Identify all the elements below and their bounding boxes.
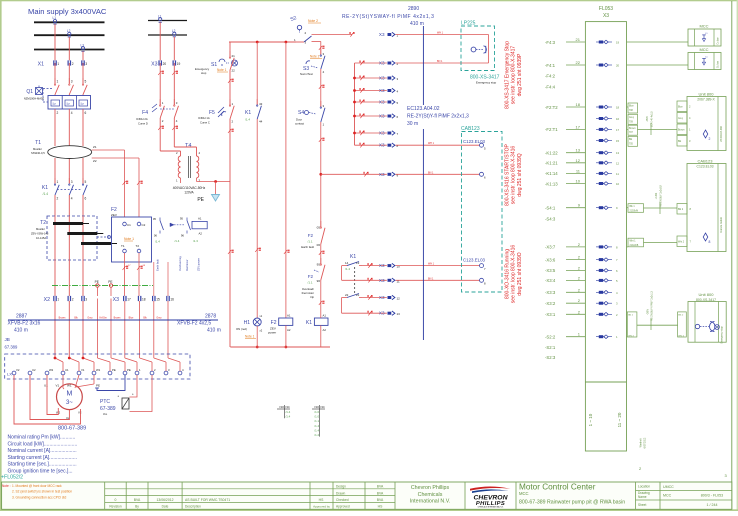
svg-text:2. S2 (and switch) is shown in: 2. S2 (and switch) is shown in test posi… [12, 490, 72, 494]
svg-text:UMCC: UMCC [663, 485, 674, 489]
svg-text:X3: X3 [151, 62, 157, 68]
svg-text:Approved: Approved [336, 505, 350, 509]
svg-text:PE: PE [197, 197, 204, 203]
svg-text:Blk 2: Blk 2 [678, 315, 684, 317]
svg-text:800-XS-3417 Emergency Stop: 800-XS-3417 Emergency Stop [505, 41, 511, 109]
svg-text:Curve C: Curve C [200, 121, 210, 125]
svg-text:Unit 800: Unit 800 [699, 292, 715, 297]
svg-text:+FL052/2: +FL052/2 [1, 475, 23, 481]
svg-text:F2: F2 [308, 233, 314, 238]
svg-text:From/to DeltaV: From/to DeltaV [720, 217, 723, 233]
svg-text:A2: A2 [287, 328, 291, 332]
svg-text:F5: F5 [209, 110, 215, 116]
svg-text:-K1:21: -K1:21 [545, 161, 558, 166]
svg-text:-K1:22: -K1:22 [545, 151, 558, 156]
svg-text:/1.1: /1.1 [314, 419, 319, 423]
svg-text:JB/B: JB/B [646, 116, 649, 122]
svg-text:2887: 2887 [16, 314, 27, 320]
svg-text:Q1: Q1 [26, 89, 33, 95]
svg-text:Wht 2: Wht 2 [628, 335, 634, 338]
svg-text:H1: H1 [244, 320, 251, 326]
svg-text:trip: trip [310, 295, 314, 299]
svg-text:PE: PE [95, 280, 99, 284]
svg-text:21: 21 [232, 54, 236, 58]
svg-text:2: 2 [72, 62, 74, 66]
svg-text:Curve D: Curve D [138, 122, 148, 126]
svg-text:-X3:2: -X3:2 [545, 301, 556, 306]
svg-text:/1.0: /1.0 [314, 410, 319, 414]
svg-text:/1.4: /1.4 [314, 428, 319, 432]
svg-text:dwg 251 sht 0939Q: dwg 251 sht 0939Q [517, 153, 523, 196]
svg-text:13: 13 [356, 261, 360, 265]
svg-text:/1.3: /1.3 [193, 239, 198, 243]
svg-text:Brown: Brown [114, 317, 121, 320]
svg-text:AS BUILT FOR WMC.TS0471: AS BUILT FOR WMC.TS0471 [185, 498, 230, 502]
svg-text:3: 3 [85, 62, 87, 66]
svg-text:/1.4: /1.4 [286, 415, 291, 419]
svg-text:XFVB-F2 4x2,5: XFVB-F2 4x2,5 [177, 321, 211, 327]
svg-text:410 m: 410 m [410, 21, 424, 27]
svg-text:1 / 244: 1 / 244 [707, 503, 718, 507]
svg-text:K1: K1 [306, 320, 312, 326]
svg-text:V2: V2 [16, 368, 20, 372]
svg-text:FL053: FL053 [599, 6, 613, 12]
svg-text:PTC: PTC [100, 399, 110, 405]
svg-text:3~: 3~ [66, 400, 73, 406]
svg-text:800-67-389 Rainwater pump pit: 800-67-389 Rainwater pump pit @ RWA basi… [519, 499, 625, 505]
svg-text:X3: X3 [379, 143, 385, 148]
svg-text:Note 2: Note 2 [310, 55, 320, 59]
svg-text:1. Mounted @ front door MCC ra: 1. Mounted @ front door MCC rack [12, 484, 62, 488]
svg-text:13/06/2012: 13/06/2012 [157, 498, 174, 502]
svg-text:-X3:6: -X3:6 [545, 257, 556, 262]
svg-text:IC60H 1A: IC60H 1A [198, 116, 210, 120]
svg-text:Date: Date [162, 505, 169, 509]
svg-text:17: 17 [127, 298, 131, 302]
svg-text:1 ~ 10: 1 ~ 10 [588, 413, 593, 426]
svg-text:M: M [66, 391, 72, 398]
svg-text:X3: X3 [379, 295, 385, 300]
svg-text:-S2:1: -S2:1 [545, 345, 556, 350]
svg-text:WH 1: WH 1 [428, 142, 435, 145]
svg-text:X3: X3 [379, 61, 385, 66]
svg-text:NO: NO [315, 405, 320, 409]
svg-text:Grey: Grey [87, 317, 93, 320]
svg-text:PE: PE [127, 368, 131, 372]
svg-text:-X3:7: -X3:7 [545, 245, 556, 250]
svg-text:see instr. loop 800-X-3417: see instr. loop 800-X-3417 [511, 46, 517, 105]
svg-text:Circuit load [kW].............: Circuit load [kW].......................… [8, 441, 78, 447]
svg-text:Emergency stop: Emergency stop [721, 326, 724, 344]
svg-text:Grey: Grey [156, 317, 162, 320]
svg-text:ON (red): ON (red) [236, 327, 247, 331]
svg-text:C123.EL03: C123.EL03 [697, 165, 714, 169]
svg-text:11: 11 [616, 172, 619, 176]
svg-text:ZEV: ZEV [111, 213, 117, 217]
svg-text:2102A/B: 2102A/B [630, 244, 639, 247]
svg-text:2878: 2878 [205, 314, 216, 320]
svg-text:800/3 - FL053: 800/3 - FL053 [701, 494, 723, 498]
svg-text:U1: U1 [44, 384, 48, 388]
svg-text:20: 20 [163, 62, 167, 66]
svg-text:Yel/Grn: Yel/Grn [99, 317, 108, 320]
svg-text:-X3:5: -X3:5 [545, 268, 556, 273]
svg-text:Brown: Brown [59, 317, 66, 320]
svg-text:Wht 2: Wht 2 [678, 335, 684, 338]
svg-text:-F4:2: -F4:2 [545, 73, 556, 78]
svg-text:Blue: Blue [629, 106, 634, 108]
svg-text:96: 96 [317, 279, 321, 283]
svg-text:/1.4: /1.4 [345, 267, 350, 271]
svg-text:(CPJ-4) 4x1,5: (CPJ-4) 4x1,5 [651, 111, 654, 127]
svg-text:LX: LX [7, 372, 12, 377]
svg-text:Location: Location [638, 485, 650, 489]
svg-text:Blk 1: Blk 1 [630, 206, 636, 208]
svg-text:V1: V1 [56, 384, 60, 388]
svg-text:15: 15 [156, 298, 160, 302]
svg-text:44: 44 [259, 120, 263, 124]
svg-text:1: 1 [57, 62, 59, 66]
svg-text:Note 1: Note 1 [245, 335, 255, 339]
svg-text:C2: C2 [142, 223, 146, 227]
svg-text:4: 4 [71, 197, 73, 201]
svg-text:Cu bar: Cu bar [717, 61, 720, 68]
svg-text:/1.4: /1.4 [314, 424, 319, 428]
svg-text:15: 15 [616, 139, 620, 143]
svg-text:RE-2Y(St)Y-fl PiMF 2x2x1,3: RE-2Y(St)Y-fl PiMF 2x2x1,3 [651, 291, 654, 321]
svg-text:X3: X3 [379, 263, 385, 268]
svg-text:Nominal rating Pm [kW]........: Nominal rating Pm [kW]........... [8, 435, 76, 441]
svg-text:10-145A: 10-145A [36, 236, 46, 240]
svg-text:21: 21 [356, 293, 360, 297]
svg-text:W2: W2 [49, 368, 54, 372]
svg-text:-K1:13: -K1:13 [545, 181, 558, 186]
svg-text:X3: X3 [379, 114, 385, 119]
svg-text:JB: JB [5, 337, 10, 342]
svg-text:/1.4: /1.4 [155, 240, 160, 244]
svg-text:Overload sig.: Overload sig. [178, 255, 182, 271]
svg-text:Chevron Phillips: Chevron Phillips [411, 485, 450, 491]
svg-text:T4: T4 [185, 143, 191, 149]
svg-text:4: 4 [71, 111, 73, 115]
svg-text:Chemicals: Chemicals [418, 492, 443, 498]
svg-text:PE: PE [112, 368, 116, 372]
svg-text:22: 22 [345, 293, 349, 297]
svg-text:800-XS-3416 START/STOP: 800-XS-3416 START/STOP [505, 143, 511, 205]
svg-text:dwg 251 sht 0939O: dwg 251 sht 0939O [517, 252, 523, 295]
svg-text:12: 12 [616, 161, 620, 165]
svg-text:-K1:14: -K1:14 [545, 171, 558, 176]
svg-text:RE-2Y(St)YSWAY-fl PiMF 4x2x1,3: RE-2Y(St)YSWAY-fl PiMF 4x2x1,3 [342, 14, 434, 20]
svg-text:Name: Name [638, 495, 647, 499]
svg-text:C1: C1 [127, 223, 131, 227]
svg-text:3. Grounding connection acc.CP: 3. Grounding connection acc.CPCI std [12, 495, 66, 499]
svg-text:Emergency stop: Emergency stop [476, 81, 497, 85]
svg-text:K1: K1 [245, 110, 251, 116]
svg-text:12: 12 [576, 158, 581, 163]
svg-text:By: By [135, 505, 139, 509]
svg-text:6: 6 [85, 197, 87, 201]
svg-text:Z1: Z1 [93, 145, 97, 149]
svg-text:/1.2: /1.2 [314, 433, 319, 437]
svg-text:-X3:4: -X3:4 [545, 278, 556, 283]
svg-text:C123.EL03: C123.EL03 [463, 258, 486, 263]
svg-text:-F2:T2: -F2:T2 [545, 105, 558, 110]
svg-text:Starting current [A]..........: Starting current [A].................... [8, 455, 77, 461]
svg-text:120VA: 120VA [184, 191, 194, 195]
svg-text:16: 16 [616, 117, 620, 121]
svg-text:18: 18 [576, 102, 581, 107]
svg-text:BN 1: BN 1 [428, 171, 434, 174]
svg-text:13: 13 [616, 151, 620, 155]
svg-text:V2: V2 [78, 411, 82, 415]
svg-text:Earth fault: Earth fault [156, 259, 160, 271]
svg-text:17: 17 [616, 128, 620, 132]
svg-text:dwg 251 sht 0939P: dwg 251 sht 0939P [517, 53, 523, 96]
svg-text:RE-2Y(St)Y 2x2x0,9: RE-2Y(St)Y 2x2x0,9 [660, 185, 663, 207]
svg-text:19: 19 [616, 41, 620, 45]
svg-text:NO: NO [280, 405, 285, 409]
svg-text:2: 2 [709, 137, 711, 141]
svg-text:International N.V.: International N.V. [410, 499, 450, 505]
svg-text:CAB123: CAB123 [698, 159, 714, 164]
svg-text:Description: Description [185, 505, 201, 509]
svg-text:Moeller: Moeller [33, 147, 42, 151]
svg-text:-CJ02: -CJ02 [655, 192, 658, 199]
svg-text:/1.1: /1.1 [307, 281, 312, 285]
svg-text:17: 17 [576, 124, 581, 129]
svg-text:96: 96 [181, 234, 185, 238]
svg-text:see instr. loop 800-X-3416: see instr. loop 800-X-3416 [511, 146, 517, 205]
svg-text:Note 1: Note 1 [124, 237, 134, 241]
svg-text:06: 06 [317, 243, 321, 247]
svg-text:ZEV-XSW-145: ZEV-XSW-145 [31, 232, 49, 236]
svg-text:22: 22 [576, 60, 581, 65]
svg-text:800-XO-3416 Running: 800-XO-3416 Running [505, 249, 511, 299]
svg-text:SSW40-0,5: SSW40-0,5 [31, 151, 45, 155]
svg-text:2: 2 [57, 111, 59, 115]
svg-text:Blk 2: Blk 2 [678, 209, 684, 211]
svg-text:Brown: Brown [629, 127, 636, 130]
svg-text:BVA: BVA [377, 498, 384, 502]
svg-text:/1.4: /1.4 [175, 239, 180, 243]
svg-text:MCC: MCC [519, 491, 529, 496]
svg-text:67.389: 67.389 [5, 345, 18, 350]
svg-text:BVA: BVA [377, 491, 384, 495]
svg-text:-F4:1: -F4:1 [545, 63, 556, 68]
svg-text:X3: X3 [379, 172, 385, 177]
svg-text:W1: W1 [67, 384, 72, 388]
svg-text:-S4:1: -S4:1 [545, 206, 556, 211]
svg-text:Blue: Blue [129, 317, 134, 320]
svg-text:5: 5 [85, 180, 87, 184]
svg-text:1: 1 [57, 298, 59, 302]
svg-text:05: 05 [153, 217, 157, 221]
svg-text:T2: T2 [40, 220, 46, 226]
svg-text:Note 1: Note 1 [217, 68, 227, 72]
svg-text:Z2: Z2 [93, 159, 97, 163]
svg-text:-F2:T1: -F2:T1 [545, 127, 558, 132]
svg-text:2: 2 [57, 197, 59, 201]
svg-text:PHILLIPS: PHILLIPS [476, 501, 505, 507]
svg-text:PE: PE [108, 280, 112, 284]
svg-text:A1: A1 [323, 314, 327, 318]
svg-text:21: 21 [576, 37, 581, 42]
svg-text:ZEV power: ZEV power [197, 258, 201, 271]
svg-text:14: 14 [345, 261, 349, 265]
svg-text:410 m: 410 m [207, 328, 221, 334]
svg-text:2102b/N: 2102b/N [630, 210, 639, 212]
svg-text:BN 1: BN 1 [437, 60, 443, 63]
svg-text:HS: HS [378, 505, 383, 509]
svg-text:T1: T1 [35, 140, 41, 146]
svg-text:22: 22 [232, 69, 236, 73]
svg-text:EC123.A04.02: EC123.A04.02 [407, 106, 440, 112]
svg-text:thermistor: thermistor [185, 259, 189, 271]
svg-text:K1: K1 [42, 185, 48, 191]
svg-text:/1.1: /1.1 [307, 240, 312, 244]
svg-text:X3: X3 [379, 32, 385, 37]
svg-text:-X3:3: -X3:3 [545, 290, 556, 295]
svg-text:67-389: 67-389 [100, 406, 116, 412]
svg-text:0: 0 [115, 498, 117, 502]
svg-text:1: 1 [57, 80, 59, 84]
svg-text:3: 3 [71, 180, 73, 184]
svg-text:-F4:4: -F4:4 [545, 84, 556, 89]
svg-text:A1: A1 [198, 217, 202, 221]
svg-text:A2: A2 [323, 328, 327, 332]
svg-text:Blk 1: Blk 1 [628, 315, 634, 317]
svg-text:K1: K1 [350, 254, 356, 260]
svg-text:/1.4: /1.4 [286, 410, 291, 414]
svg-text:Moeller: Moeller [36, 227, 45, 231]
svg-text:/1.0: /1.0 [314, 415, 319, 419]
svg-text:-X3:1: -X3:1 [545, 312, 556, 317]
svg-text:power: power [268, 331, 276, 335]
svg-text:RE-2Y(St)Y-fl PiMF 2x2x1,3: RE-2Y(St)Y-fl PiMF 2x2x1,3 [407, 114, 469, 120]
svg-text:06: 06 [154, 234, 158, 238]
svg-text:-S2:3: -S2:3 [545, 355, 556, 360]
svg-text:T2: T2 [136, 244, 140, 248]
svg-text:X3: X3 [379, 131, 385, 136]
svg-text:/1.4: /1.4 [43, 192, 49, 196]
svg-text:2: 2 [72, 298, 74, 302]
svg-text:XFVB-F2 3x16: XFVB-F2 3x16 [8, 321, 41, 327]
svg-text:Wht 1: Wht 1 [630, 240, 637, 243]
svg-text:95: 95 [180, 217, 184, 221]
svg-text:IC60H 2A: IC60H 2A [136, 117, 148, 121]
svg-text:WH 1: WH 1 [428, 263, 435, 266]
svg-text:Grey: Grey [629, 116, 635, 119]
svg-text:contact: contact [295, 122, 304, 126]
svg-text:A2: A2 [199, 232, 203, 236]
svg-text:18: 18 [142, 298, 146, 302]
svg-text:A1: A1 [287, 314, 291, 318]
svg-text:Unit 800: Unit 800 [699, 92, 715, 97]
svg-text:NZM100H-MA50: NZM100H-MA50 [24, 97, 45, 101]
svg-text:HS: HS [319, 498, 324, 502]
svg-text:F2: F2 [308, 274, 314, 279]
svg-text:BVA: BVA [134, 498, 141, 502]
svg-text:Grey: Grey [678, 117, 684, 120]
svg-text:F4: F4 [142, 110, 148, 116]
svg-text:800-67-389: 800-67-389 [58, 426, 86, 432]
svg-text:Wht 2: Wht 2 [678, 241, 685, 244]
svg-text:U2: U2 [32, 368, 36, 372]
svg-text:Nominal current [A]...........: Nominal current [A]................... [8, 448, 77, 454]
svg-text:Group ignition time te [sec.].: Group ignition time te [sec.]... [8, 468, 73, 474]
svg-text:20: 20 [616, 64, 620, 68]
svg-text:Note 2: Note 2 [308, 19, 318, 23]
svg-text:18: 18 [616, 106, 620, 110]
svg-text:-S2:2: -S2:2 [545, 335, 556, 340]
svg-text:16: 16 [170, 298, 174, 302]
svg-text:-S4:3: -S4:3 [545, 217, 556, 222]
svg-text:6: 6 [85, 111, 87, 115]
svg-text:6/07/2012: 6/07/2012 [644, 437, 647, 448]
svg-text:S4: S4 [298, 110, 304, 116]
svg-text:Blue: Blue [678, 107, 683, 109]
svg-text:5: 5 [85, 80, 87, 84]
svg-text:X1: X1 [38, 62, 44, 68]
svg-text:12: 12 [397, 297, 401, 301]
svg-text:X3: X3 [379, 311, 385, 316]
svg-text:8: 8 [709, 240, 711, 244]
svg-text:stop: stop [201, 71, 207, 75]
svg-text:X2: X2 [44, 297, 50, 303]
svg-text:Design: Design [336, 485, 346, 489]
svg-text:Main supply 3x400VAC: Main supply 3x400VAC [28, 7, 107, 16]
svg-text:Norm/Test: Norm/Test [300, 72, 313, 76]
svg-text:X3: X3 [113, 297, 119, 303]
svg-text:T1: T1 [121, 244, 125, 248]
svg-text:Drawn: Drawn [336, 491, 345, 495]
svg-text:see instr. loop 800-X-3416: see instr. loop 800-X-3416 [511, 245, 517, 304]
svg-text:-OBN: -OBN [647, 309, 650, 315]
svg-text:10: 10 [616, 182, 620, 186]
svg-text:Brown: Brown [678, 129, 685, 132]
svg-text:PE: PE [96, 384, 100, 388]
svg-text:Earth fault: Earth fault [301, 245, 314, 249]
svg-text:BVA: BVA [377, 485, 384, 489]
svg-text:MCC: MCC [699, 47, 708, 52]
svg-text:13: 13 [576, 148, 581, 153]
svg-text:Motor Control Center: Motor Control Center [519, 483, 596, 492]
svg-text:3: 3 [85, 298, 87, 302]
svg-text:30 m: 30 m [407, 121, 418, 127]
svg-text:Starting time [sec.]..........: Starting time [sec.].................... [8, 462, 77, 468]
svg-text:JB 800-67-389: JB 800-67-389 [720, 125, 723, 141]
svg-text:3xL: 3xL [103, 412, 108, 416]
svg-text:X3: X3 [603, 13, 609, 19]
svg-text:WH 1: WH 1 [437, 32, 444, 35]
svg-text:W1: W1 [96, 368, 101, 372]
svg-text:Cu bar: Cu bar [717, 37, 720, 44]
svg-text:13: 13 [397, 312, 401, 316]
svg-text:/1.4: /1.4 [245, 118, 250, 122]
svg-text:1: 1 [57, 180, 59, 184]
svg-text:3: 3 [71, 80, 73, 84]
svg-text:Approved by: Approved by [313, 505, 330, 509]
svg-text:Checked: Checked [336, 498, 349, 502]
svg-text:MCC: MCC [699, 24, 708, 29]
svg-text:X3: X3 [379, 88, 385, 93]
svg-text:Sheet: Sheet [638, 503, 646, 507]
svg-text:U1: U1 [65, 368, 69, 372]
svg-text:10: 10 [576, 179, 581, 184]
svg-text:V1: V1 [81, 368, 85, 372]
svg-text:2890: 2890 [408, 6, 419, 12]
